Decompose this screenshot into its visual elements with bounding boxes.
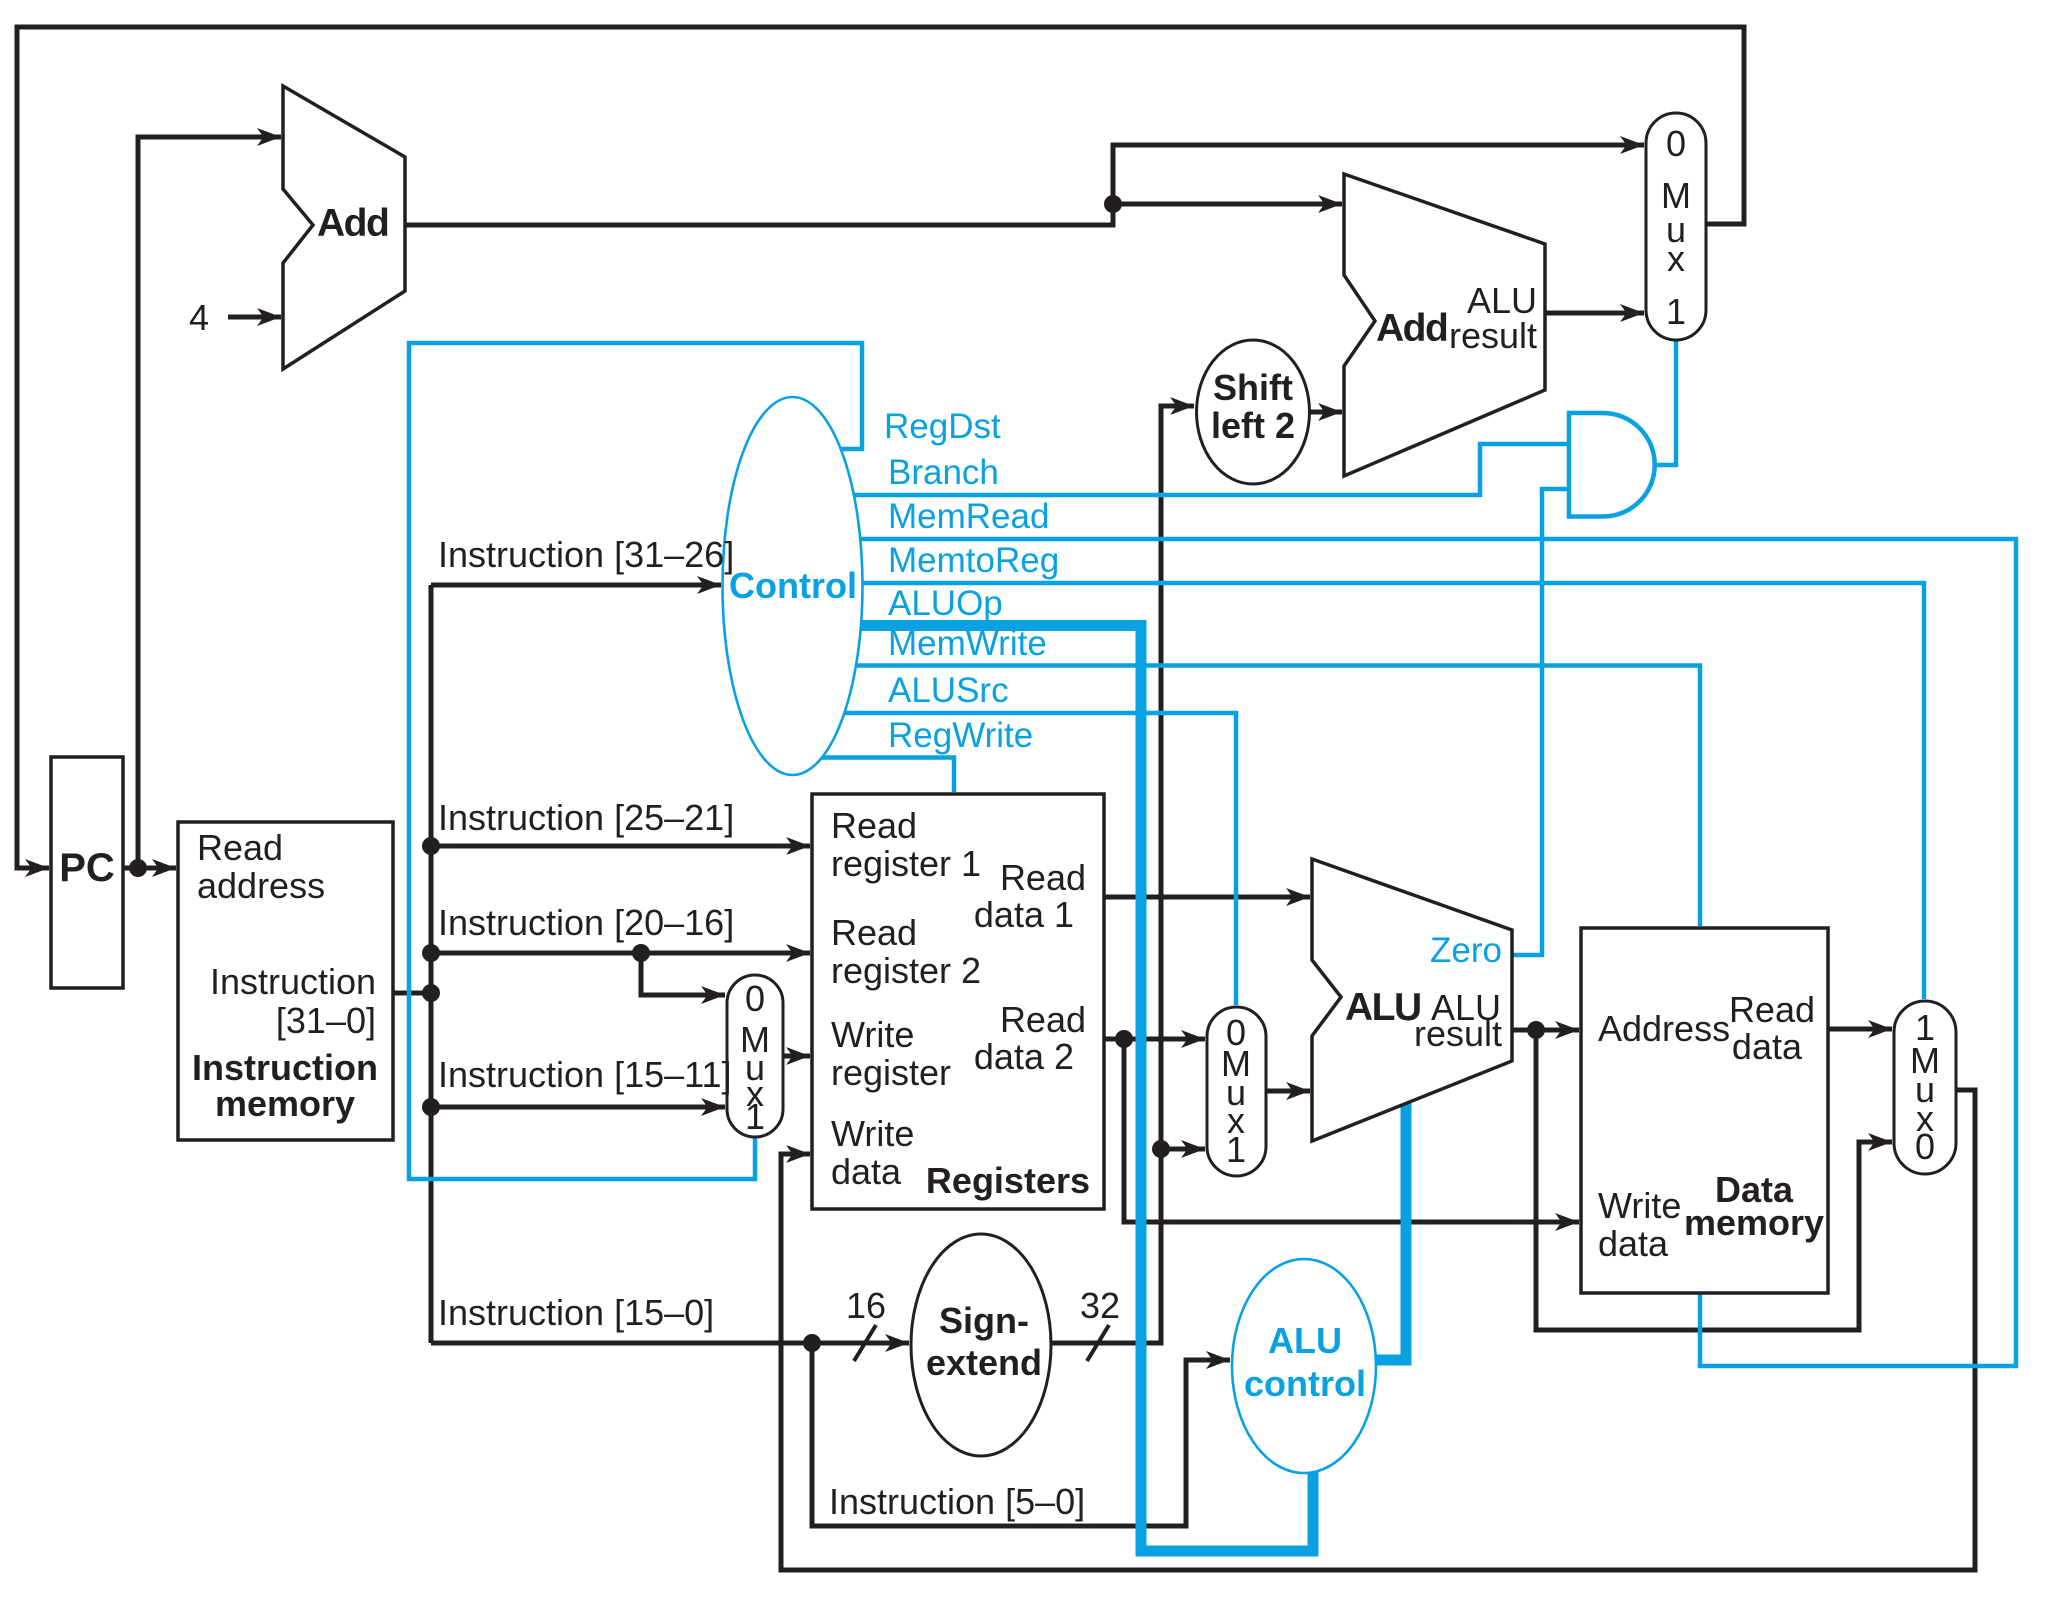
svg-text:Read: Read xyxy=(1729,989,1815,1030)
wire: Instruction[20-16] branch to write-register mux input 0 xyxy=(641,953,725,995)
mux: MemtoReg (final) mux xyxy=(1894,1001,1956,1174)
svg-text:control: control xyxy=(1244,1363,1366,1404)
wire: RegDst control to write-register mux select xyxy=(409,343,862,1179)
wire: Instruction[15-11] to write-register mux input 1 xyxy=(431,1105,725,1110)
wire: ALUSrc mux output to ALU xyxy=(1266,1089,1310,1094)
wire: RegWrite control to Registers xyxy=(818,758,954,793)
Control ellipse xyxy=(723,397,863,775)
mux: PCSrc mux (top right) xyxy=(1646,113,1706,340)
wire: ALU result wrap to final mux input 0 xyxy=(1536,1030,1892,1330)
svg-text:MemWrite: MemWrite xyxy=(888,624,1047,663)
wire: Data memory Read data to final mux input 1 xyxy=(1828,1027,1892,1032)
svg-text:data: data xyxy=(1732,1026,1803,1067)
junction: ALU result branch xyxy=(1527,1021,1545,1039)
svg-text:ALUSrc: ALUSrc xyxy=(888,671,1009,710)
svg-text:Address: Address xyxy=(1598,1008,1730,1049)
svg-text:0: 0 xyxy=(1666,123,1686,164)
svg-text:register: register xyxy=(831,1052,951,1093)
wire: Instruction[20-16] to Read register 2 xyxy=(431,951,810,956)
svg-text:Instruction [15–0]: Instruction [15–0] xyxy=(438,1292,714,1333)
svg-text:Registers: Registers xyxy=(926,1160,1090,1201)
svg-text:Read: Read xyxy=(831,805,917,846)
Data memory box xyxy=(1581,928,1828,1293)
wire: PC up to Add input xyxy=(138,137,281,868)
svg-text:Add: Add xyxy=(1376,307,1447,350)
svg-text:32: 32 xyxy=(1080,1285,1120,1326)
svg-text:RegWrite: RegWrite xyxy=(888,716,1033,755)
svg-text:data 2: data 2 xyxy=(974,1036,1074,1077)
mux: ALUSrc mux xyxy=(1207,1007,1266,1176)
PC register xyxy=(51,757,123,988)
Instruction memory box xyxy=(178,822,393,1140)
svg-text:Write: Write xyxy=(831,1113,914,1154)
wire: ALUOp control bus to ALU control xyxy=(850,626,1313,1552)
svg-text:extend: extend xyxy=(926,1342,1042,1383)
svg-text:Write: Write xyxy=(1598,1185,1681,1226)
svg-text:1: 1 xyxy=(1666,291,1686,332)
svg-text:Instruction [15–11]: Instruction [15–11] xyxy=(438,1054,732,1095)
adder Add ALU result (branch target) xyxy=(1344,174,1545,476)
svg-text:Add: Add xyxy=(317,202,388,245)
wire: MemtoReg control to final mux select xyxy=(846,583,1924,999)
AND gate (branch) xyxy=(1569,413,1655,517)
mux: write-register (RegDst) mux xyxy=(727,975,783,1137)
wire: Add output PC+4 to top mux input 0 xyxy=(402,145,1644,225)
wire: instruction bus vertical xyxy=(429,585,434,1343)
Registers box xyxy=(812,794,1104,1209)
wire: Read data 2 branch to Data memory Write data xyxy=(1124,1039,1579,1222)
wire: Shift left 2 output to Add ALU result xyxy=(1309,410,1342,415)
slash: 16-bit bus marker xyxy=(854,1325,876,1361)
wire: Instruction[31-0] from Instruction memory to bus xyxy=(393,991,431,996)
wire: Instruction[25-21] to Read register 1 xyxy=(431,844,810,849)
svg-text:0: 0 xyxy=(1915,1126,1935,1167)
junction: bus at Instruction[15-11] xyxy=(422,1098,440,1116)
svg-text:[31–0]: [31–0] xyxy=(276,1000,376,1041)
wire: sign-extend branch to ALUSrc mux input 1 xyxy=(1161,1147,1205,1152)
junction: PC output xyxy=(129,859,147,877)
svg-text:Instruction [25–21]: Instruction [25–21] xyxy=(438,797,734,838)
svg-text:Sign-: Sign- xyxy=(939,1300,1029,1341)
svg-text:RegDst: RegDst xyxy=(884,407,1001,446)
wire: Read data 1 to ALU xyxy=(1104,895,1310,900)
wire: MemRead control to Data memory xyxy=(848,539,2016,1366)
svg-text:memory: memory xyxy=(215,1083,355,1124)
svg-text:Branch: Branch xyxy=(888,453,999,492)
ALU xyxy=(1312,859,1512,1141)
junction: bus at Instruction[31-0] xyxy=(422,984,440,1002)
wire: ALUSrc control to ALUSrc mux select xyxy=(838,713,1236,1005)
svg-text:ALUOp: ALUOp xyxy=(888,584,1003,623)
svg-text:Read: Read xyxy=(831,912,917,953)
svg-text:Instruction: Instruction xyxy=(192,1047,378,1088)
wire: Instruction[31-26] to Control xyxy=(431,583,721,588)
wire: ALU control output to ALU select xyxy=(1374,1101,1406,1360)
svg-text:Instruction [5–0]: Instruction [5–0] xyxy=(829,1481,1085,1522)
slash: 32-bit bus marker xyxy=(1087,1325,1109,1361)
wire: write-register mux output to Write register xyxy=(783,1054,810,1059)
junction: Instruction[20-16] branch xyxy=(632,944,650,962)
svg-text:Instruction [31–26]: Instruction [31–26] xyxy=(438,534,734,575)
svg-text:Instruction [20–16]: Instruction [20–16] xyxy=(438,902,734,943)
wire: PC+4 branch to Add ALU result top input xyxy=(1113,202,1342,207)
svg-text:data: data xyxy=(831,1151,902,1192)
junction: Read data 2 branch xyxy=(1115,1030,1133,1048)
svg-text:data 1: data 1 xyxy=(974,894,1074,935)
svg-text:Control: Control xyxy=(729,565,857,606)
svg-text:register 2: register 2 xyxy=(831,950,981,991)
svg-text:ALU: ALU xyxy=(1268,1320,1342,1361)
svg-text:result: result xyxy=(1449,315,1537,356)
junction: bus at Instruction[25-21] xyxy=(422,837,440,855)
junction: bus at Instruction[20-16] xyxy=(422,944,440,962)
svg-text:1: 1 xyxy=(1226,1129,1246,1170)
junction: Instruction[15-0] branch xyxy=(803,1334,821,1352)
svg-text:ALU: ALU xyxy=(1345,986,1421,1029)
wire: constant 4 to Add xyxy=(228,315,281,320)
junction: PC+4 branch xyxy=(1104,195,1122,213)
svg-text:x: x xyxy=(1667,238,1685,279)
svg-text:data: data xyxy=(1598,1223,1669,1264)
svg-text:memory: memory xyxy=(1684,1202,1824,1243)
wire: AND gate output to top mux select xyxy=(1653,338,1676,465)
svg-text:MemtoReg: MemtoReg xyxy=(888,541,1059,580)
svg-text:Read: Read xyxy=(1000,999,1086,1040)
svg-text:0: 0 xyxy=(745,978,765,1019)
svg-text:PC: PC xyxy=(59,846,115,890)
svg-text:Zero: Zero xyxy=(1430,931,1502,970)
svg-text:Shift: Shift xyxy=(1213,367,1293,408)
svg-text:1: 1 xyxy=(745,1096,765,1137)
wire: ALU result to Data memory Address xyxy=(1512,1028,1579,1033)
svg-text:Read: Read xyxy=(1000,857,1086,898)
svg-text:address: address xyxy=(197,865,325,906)
wire: Add ALU result output to top mux input 1 xyxy=(1545,311,1644,316)
svg-text:4: 4 xyxy=(189,297,209,338)
wire: mux0/1 top output loop to PC input xyxy=(17,27,1744,868)
ALU control ellipse xyxy=(1232,1259,1376,1473)
wire: PC to Instruction memory Read address xyxy=(123,866,176,871)
svg-text:16: 16 xyxy=(846,1285,886,1326)
svg-text:Write: Write xyxy=(831,1014,914,1055)
wire: Instruction[5-0] to ALU control xyxy=(812,1343,1230,1526)
wire: final mux output wrap to Registers Write data xyxy=(781,1090,1975,1570)
Sign-extend ellipse xyxy=(911,1234,1051,1456)
svg-text:result: result xyxy=(1414,1013,1502,1054)
wire: Instruction[15-0] to Sign-extend xyxy=(431,1341,909,1346)
svg-text:register 1: register 1 xyxy=(831,843,981,884)
wire: MemWrite control to Data memory xyxy=(844,666,1700,927)
adder Add (PC+4) xyxy=(283,86,405,369)
wire: Sign-extend output up to Shift left 2 xyxy=(1052,406,1194,1343)
svg-text:Instruction: Instruction xyxy=(210,961,376,1002)
wire: Branch control to AND gate xyxy=(845,444,1569,495)
Shift left 2 ellipse xyxy=(1197,340,1310,484)
junction: sign-extend branch xyxy=(1152,1140,1170,1158)
svg-text:left 2: left 2 xyxy=(1211,405,1295,446)
wire: Read data 2 to ALUSrc mux input 0 xyxy=(1104,1037,1205,1042)
svg-text:Read: Read xyxy=(197,827,283,868)
svg-text:MemRead: MemRead xyxy=(888,497,1049,536)
wire: Zero output to AND gate xyxy=(1510,489,1569,955)
